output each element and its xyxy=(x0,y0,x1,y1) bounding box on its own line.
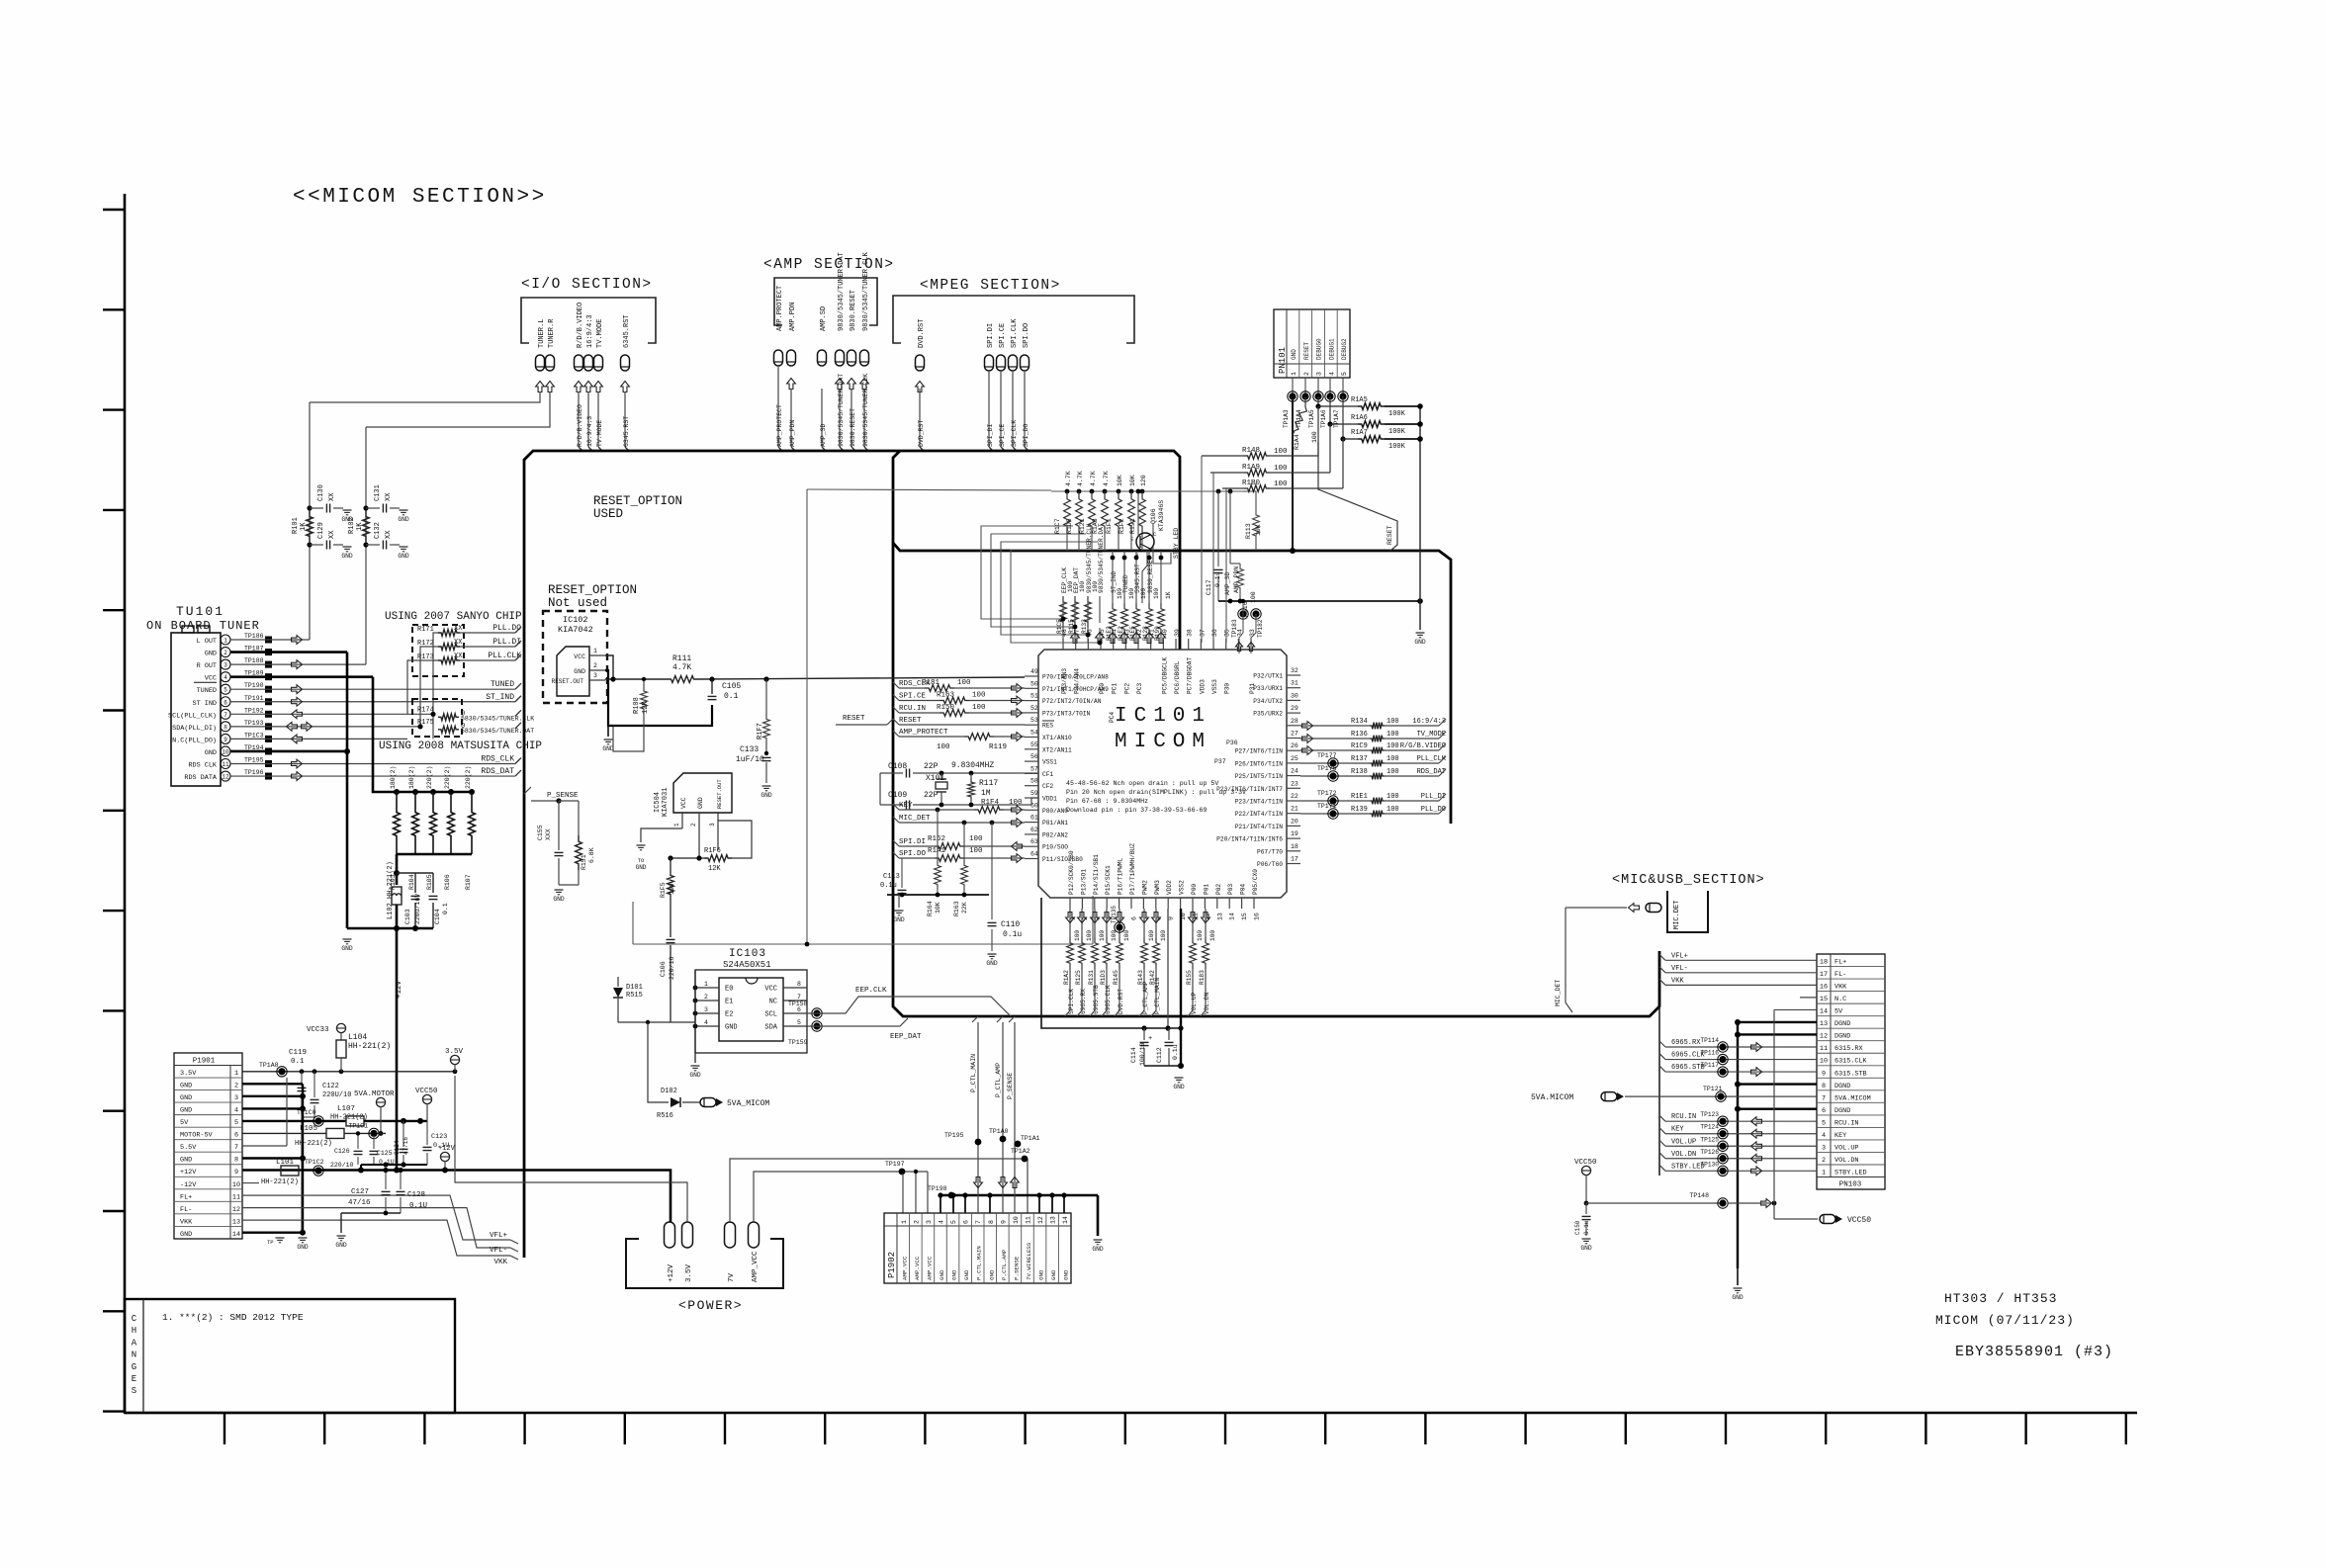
wire 9830/5345/TUNER.CLK down to bus xyxy=(862,374,869,451)
svg-text:EEP_DAT: EEP_DAT xyxy=(890,1033,922,1041)
svg-text:TUNER.R: TUNER.R xyxy=(548,318,556,348)
svg-text:Not used: Not used xyxy=(548,596,607,610)
wire eeprom net vertical xyxy=(1062,596,1064,623)
svg-text:220/16: 220/16 xyxy=(669,956,675,980)
svg-text:100: 100 xyxy=(1387,718,1399,726)
svg-text:5VA.MICOM: 5VA.MICOM xyxy=(1834,1094,1871,1102)
micom pin 28 xyxy=(1287,718,1300,726)
svg-text:28: 28 xyxy=(1291,718,1298,725)
ground IC102 xyxy=(604,739,613,740)
resistor R137 100 to PLL_CLK xyxy=(1300,752,1447,768)
svg-text:P25/INT5/T1IN: P25/INT5/T1IN xyxy=(1235,773,1284,780)
svg-text:GND: GND xyxy=(602,745,614,752)
svg-text:56: 56 xyxy=(1030,753,1038,760)
svg-text:H: H xyxy=(132,1326,136,1336)
svg-text:MIC_DET: MIC_DET xyxy=(1555,980,1562,1006)
svg-text:58: 58 xyxy=(1030,778,1038,785)
svg-text:TP1A6: TP1A6 xyxy=(1320,409,1327,428)
capacitor C110 0.1u xyxy=(988,823,1023,951)
svg-text:P35/URX2: P35/URX2 xyxy=(1253,711,1283,718)
svg-text:C130: C130 xyxy=(317,484,325,501)
test point TP1A5 xyxy=(1308,378,1323,428)
svg-text:1K: 1K xyxy=(1165,591,1172,599)
wire Q106 collector STBY_LED xyxy=(1136,489,1180,603)
svg-text:GND: GND xyxy=(725,1024,738,1032)
svg-text:C155: C155 xyxy=(537,825,544,840)
resistor R131 100 net 6965.STB xyxy=(1088,909,1106,1016)
svg-text:R1F2: R1F2 xyxy=(1118,518,1125,534)
eeprom pin 7 NC xyxy=(769,994,807,1006)
svg-text:17: 17 xyxy=(1291,856,1298,863)
svg-text:P23/INT4/T1IN: P23/INT4/T1IN xyxy=(1235,799,1284,806)
wire interior horizontal node xyxy=(633,896,1093,946)
wire 5V pullup rail xyxy=(1051,490,1243,492)
micom pin 12 xyxy=(1203,884,1211,920)
svg-text:C124: C124 xyxy=(394,1140,401,1155)
wire chip left edge ground trace xyxy=(1041,898,1181,1031)
svg-text:9: 9 xyxy=(1000,1220,1007,1224)
svg-text:5: 5 xyxy=(1822,1119,1826,1127)
micom pin 25 xyxy=(1235,755,1300,768)
svg-text:TP: TP xyxy=(267,1239,274,1246)
wire tuner GND rail bold xyxy=(346,653,349,928)
resistor R115 100 xyxy=(1068,581,1086,644)
svg-text:100: 100 xyxy=(972,704,986,712)
svg-text:100: 100 xyxy=(1148,930,1155,941)
svg-text:7: 7 xyxy=(224,712,227,719)
wire pullup to row xyxy=(1104,534,1106,551)
svg-text:6965.RX: 6965.RX xyxy=(1671,1039,1701,1047)
svg-text:220/10: 220/10 xyxy=(330,1162,354,1169)
wire P.CTL.MAIN xyxy=(944,1016,982,1213)
svg-text:TP192: TP192 xyxy=(244,707,264,714)
wire VKK row xyxy=(1659,977,1817,985)
connector MIC.DET xyxy=(1629,904,1662,913)
svg-text:0.1u: 0.1u xyxy=(1214,571,1221,587)
svg-text:TP188: TP188 xyxy=(244,657,264,664)
svg-text:23: 23 xyxy=(1291,780,1298,787)
svg-text:5: 5 xyxy=(1341,372,1348,376)
ground P.SENSE filter xyxy=(555,889,564,891)
svg-text:39: 39 xyxy=(1174,629,1181,637)
wire +12V to power xyxy=(242,1171,671,1223)
svg-text:0.1u: 0.1u xyxy=(1583,1220,1590,1235)
svg-text:XT1/AN10: XT1/AN10 xyxy=(1042,735,1072,741)
MPEG connector pin SPI.CLK xyxy=(1009,318,1020,371)
resistor R183 100 net VOL.DN xyxy=(1199,909,1216,1016)
svg-text:IC504: IC504 xyxy=(654,792,662,813)
svg-text:C: C xyxy=(132,1314,137,1324)
svg-text:GND: GND xyxy=(988,1269,995,1280)
svg-text:100/10: 100/10 xyxy=(1139,1042,1146,1066)
micom pin 43 xyxy=(1123,629,1130,694)
svg-text:P20/INT4/T1IN/INT6: P20/INT4/T1IN/INT6 xyxy=(1216,836,1283,843)
svg-text:VSS1: VSS1 xyxy=(1042,759,1057,766)
svg-text:TP190: TP190 xyxy=(244,682,264,689)
svg-text:100: 100 xyxy=(937,743,950,751)
connector P1902 xyxy=(884,1213,1071,1283)
micom pin 53 RES xyxy=(1025,717,1054,730)
micom pin 37 xyxy=(1199,629,1206,694)
svg-text:R163: R163 xyxy=(953,901,960,916)
capacitor C126 220/10 xyxy=(330,1131,363,1169)
svg-text:R/D/B.VIDEO: R/D/B.VIDEO xyxy=(577,303,584,348)
svg-text:3.5V: 3.5V xyxy=(180,1070,197,1078)
micom pin 59 VDD1 xyxy=(1025,790,1057,803)
svg-text:E: E xyxy=(132,1374,136,1384)
svg-text:7: 7 xyxy=(975,1220,982,1224)
wire pullup to row xyxy=(1141,534,1143,551)
svg-text:P21/INT4/T1IN: P21/INT4/T1IN xyxy=(1235,824,1284,830)
svg-text:GND: GND xyxy=(986,960,998,967)
signal SPI.DI R162 xyxy=(893,835,1025,850)
resistor R163 22K xyxy=(953,823,968,916)
svg-text:11: 11 xyxy=(222,761,229,768)
AMP connector pin AMP.SD xyxy=(818,306,829,366)
micom pin 63 P10/SOO xyxy=(1025,838,1068,851)
tuner TU101 pin 3 R OUT xyxy=(197,657,272,670)
svg-text:GND: GND xyxy=(963,1269,970,1280)
svg-text:TP1A1: TP1A1 xyxy=(1021,1135,1040,1142)
svg-text:R108: R108 xyxy=(633,697,641,714)
svg-text:L OUT: L OUT xyxy=(197,638,217,646)
svg-text:VSS2: VSS2 xyxy=(1179,880,1186,895)
svg-text:1: 1 xyxy=(901,1220,908,1224)
svg-text:64: 64 xyxy=(1030,851,1038,858)
svg-text:22K: 22K xyxy=(961,902,968,914)
wire cap bottoms xyxy=(1144,1065,1181,1067)
svg-text:4: 4 xyxy=(704,1019,708,1026)
resistor R1A9 100 xyxy=(1210,424,1330,476)
micom pin 36 xyxy=(1211,629,1218,694)
svg-text:PC3: PC3 xyxy=(1136,683,1143,694)
svg-text:XX: XX xyxy=(385,492,393,501)
svg-text:ST IND: ST IND xyxy=(193,700,217,708)
svg-text:VKK: VKK xyxy=(1834,984,1847,992)
wire STBY.LED row TP130 xyxy=(1659,1161,1817,1176)
micom pin 2 xyxy=(1080,869,1089,920)
svg-text:C114: C114 xyxy=(1130,1047,1137,1063)
svg-text:GND: GND xyxy=(1291,349,1297,360)
svg-text:R145: R145 xyxy=(1113,970,1119,985)
resistor R121 4.7K xyxy=(1079,471,1097,534)
wire PLL.CLK to tuner pin xyxy=(437,659,439,661)
border frame left ruler xyxy=(103,194,125,1413)
svg-text:11: 11 xyxy=(1820,1045,1828,1053)
svg-text:P.CTL.AMP: P.CTL.AMP xyxy=(1001,1249,1008,1280)
svg-text:IC101: IC101 xyxy=(1115,705,1211,728)
svg-text:R111: R111 xyxy=(672,654,691,663)
resistor R1E1 100 to PLL_DI xyxy=(1300,790,1446,806)
svg-text:6: 6 xyxy=(797,1006,801,1013)
svg-text:RESET.OUT: RESET.OUT xyxy=(716,779,723,809)
micom pin 61 P81/AN1 xyxy=(1025,815,1068,828)
svg-text:C119: C119 xyxy=(289,1049,307,1057)
signal SPI.CE xyxy=(893,692,1025,705)
svg-text:180(2): 180(2) xyxy=(408,766,415,789)
tuner TU101 pin 9 N.C(PLL_DO) xyxy=(172,732,272,744)
svg-text:VKK: VKK xyxy=(493,1259,507,1266)
svg-text:22: 22 xyxy=(1291,793,1298,800)
diode D101 R515 xyxy=(613,977,695,1024)
svg-text:P73/INT3/T0IN: P73/INT3/T0IN xyxy=(1042,710,1091,717)
test point TP1A4 xyxy=(1296,378,1310,428)
svg-text:24: 24 xyxy=(1291,768,1298,775)
svg-text:9830/5345/TUNER.CLK: 9830/5345/TUNER.CLK xyxy=(862,251,870,331)
svg-text:P22/INT4/T1IN: P22/INT4/T1IN xyxy=(1235,811,1284,818)
resistor R101 1K xyxy=(292,511,313,542)
svg-text:R515: R515 xyxy=(626,992,643,1000)
svg-text:R104: R104 xyxy=(408,874,415,890)
svg-text:AMP.SD: AMP.SD xyxy=(820,306,828,331)
svg-text:1: 1 xyxy=(593,648,597,654)
svg-text:2: 2 xyxy=(224,650,227,656)
svg-text:DVD.RST: DVD.RST xyxy=(1118,989,1124,1014)
svg-text:SPI.CLK: SPI.CLK xyxy=(1011,318,1019,348)
svg-text:E0: E0 xyxy=(725,986,733,994)
svg-text:GND: GND xyxy=(180,1083,192,1090)
svg-text:100: 100 xyxy=(1009,799,1023,807)
wire IC504 pin1 to gnd xyxy=(641,828,682,842)
micom pin 11 xyxy=(1191,884,1200,920)
svg-text:AMP.PDN: AMP.PDN xyxy=(789,303,797,331)
capacitor C114 100/10 xyxy=(1130,1028,1152,1066)
svg-text:GND: GND xyxy=(1732,1294,1744,1301)
svg-text:XT2/AN11: XT2/AN11 xyxy=(1042,746,1072,753)
svg-text:D101: D101 xyxy=(626,984,643,992)
wire MOTOR-5V L105 xyxy=(242,1122,386,1148)
svg-text:R1C9: R1C9 xyxy=(1351,742,1368,750)
svg-text:100: 100 xyxy=(1209,930,1216,941)
svg-text:6965.STB: 6965.STB xyxy=(1093,985,1100,1014)
svg-text:C126: C126 xyxy=(334,1148,350,1155)
resistor R174 0 xyxy=(417,706,534,722)
wire FL+ to bus xyxy=(242,1195,518,1244)
svg-text:C113: C113 xyxy=(883,873,900,881)
svg-text:VDD1: VDD1 xyxy=(1042,796,1057,803)
capacitor C112 0.1u xyxy=(1156,1028,1179,1066)
svg-text:XX: XX xyxy=(385,530,393,539)
wire +12V rail vertical bold xyxy=(396,905,403,1171)
svg-text:G: G xyxy=(132,1362,136,1372)
svg-text:52: 52 xyxy=(1030,705,1038,712)
resistor R113 10K xyxy=(1243,491,1262,551)
wire PLL.DI to tuner pin xyxy=(437,646,439,648)
svg-text:KIA7031: KIA7031 xyxy=(662,788,670,817)
svg-text:14: 14 xyxy=(1229,913,1236,920)
svg-text:R1A9: R1A9 xyxy=(1242,464,1260,472)
svg-text:RDS CLK: RDS CLK xyxy=(188,762,217,770)
svg-text:R102: R102 xyxy=(348,517,356,534)
svg-text:R183: R183 xyxy=(1199,970,1206,985)
mic usb section header xyxy=(1612,873,1765,932)
wire TU101 pin2 GND bold xyxy=(230,651,347,653)
svg-text:R137: R137 xyxy=(1351,755,1368,763)
dashed box reset option xyxy=(543,611,607,703)
svg-text:P10/SOO: P10/SOO xyxy=(1042,844,1068,851)
svg-text:P03: P03 xyxy=(1227,884,1234,895)
transistor Q106 KTA3946S xyxy=(1130,500,1165,559)
svg-text:6315.CLK: 6315.CLK xyxy=(1834,1058,1868,1066)
svg-text:Download pin : pin 37-38-39-53: Download pin : pin 37-38-39-53-66-69 xyxy=(1066,807,1207,814)
capacitor C132 xyxy=(363,522,408,560)
svg-text:R139: R139 xyxy=(1351,806,1368,814)
resistor R172 XX xyxy=(417,638,521,650)
svg-text:R113: R113 xyxy=(1245,523,1252,539)
svg-text:100: 100 xyxy=(1117,588,1123,599)
wire eeprom net vertical xyxy=(1074,596,1076,623)
svg-text:6965.RX: 6965.RX xyxy=(1080,989,1087,1014)
capacitor C128 0.1U xyxy=(397,1168,428,1213)
wire amp sd node xyxy=(1218,598,1423,604)
svg-text:R164: R164 xyxy=(927,901,934,916)
svg-text:4.7K: 4.7K xyxy=(672,663,691,672)
resistor R1F1 10K xyxy=(1106,475,1123,534)
svg-text:NC: NC xyxy=(769,999,777,1006)
svg-text:GND: GND xyxy=(939,1269,945,1280)
svg-text:CF1: CF1 xyxy=(1042,771,1053,778)
svg-text:2: 2 xyxy=(690,823,697,827)
border frame bottom ruler xyxy=(125,1413,2137,1444)
svg-text:100: 100 xyxy=(1074,930,1081,941)
resistor R173 XX xyxy=(417,652,521,663)
svg-text:+: + xyxy=(1148,1035,1152,1043)
svg-text:SPI.CLK: SPI.CLK xyxy=(1068,989,1075,1014)
svg-text:KEY: KEY xyxy=(1834,1132,1846,1140)
svg-text:4: 4 xyxy=(234,1107,238,1115)
svg-text:5V: 5V xyxy=(1834,1008,1843,1016)
svg-text:USING 2007 SANYO CHIP: USING 2007 SANYO CHIP xyxy=(385,611,522,623)
svg-text:R138: R138 xyxy=(1351,768,1368,776)
svg-text:29: 29 xyxy=(1291,705,1298,712)
svg-text:C123: C123 xyxy=(431,1133,447,1141)
svg-text:XX: XX xyxy=(328,530,336,539)
wire TUNER.L to tuner xyxy=(310,392,540,402)
ground reset pullup xyxy=(1416,632,1425,634)
micom pin 13 xyxy=(1215,884,1224,920)
svg-text:TP171: TP171 xyxy=(1317,803,1337,810)
svg-text:10K: 10K xyxy=(935,902,941,914)
AMP connector pin 9830/5345/TUNER.DAT xyxy=(836,252,847,389)
svg-text:3: 3 xyxy=(704,1006,708,1013)
svg-text:RES: RES xyxy=(1042,723,1053,730)
wire R108 down xyxy=(613,722,644,751)
svg-text:P17/T1PWMH/BUZ: P17/T1PWMH/BUZ xyxy=(1129,843,1136,895)
svg-text:R151: R151 xyxy=(581,854,587,870)
svg-text:GND: GND xyxy=(951,1269,958,1280)
svg-text:TP195: TP195 xyxy=(244,757,264,764)
svg-text:TP195: TP195 xyxy=(944,1132,964,1139)
svg-text:DVD.RST: DVD.RST xyxy=(918,319,926,348)
svg-text:VFL-: VFL- xyxy=(490,1247,507,1255)
svg-text:PC6/DBGRL: PC6/DBGRL xyxy=(1174,660,1181,694)
svg-text:GND: GND xyxy=(636,864,647,871)
svg-text:100: 100 xyxy=(1311,431,1318,443)
svg-text:TP183: TP183 xyxy=(1231,619,1238,638)
svg-text:SDA: SDA xyxy=(764,1024,777,1032)
ground IC103 xyxy=(691,1065,700,1067)
wire key filter gnd node xyxy=(887,893,989,908)
svg-text:1: 1 xyxy=(704,981,708,988)
tuner TU101 pin 4 VCC xyxy=(205,670,272,683)
MPEG connector pin DVD.RST xyxy=(916,319,927,392)
resistor R1A3 4.7K xyxy=(1092,471,1110,534)
svg-text:C128: C128 xyxy=(407,1191,425,1199)
svg-text:HH-221(2): HH-221(2) xyxy=(261,1178,299,1186)
notes box CHANGES xyxy=(125,1299,455,1413)
svg-text:CF2: CF2 xyxy=(1042,783,1053,790)
svg-text:AMP_PDN: AMP_PDN xyxy=(1233,566,1240,593)
svg-text:GND: GND xyxy=(398,516,409,523)
svg-text:<POWER>: <POWER> xyxy=(678,1298,743,1313)
svg-text:GND: GND xyxy=(1092,1246,1104,1253)
svg-text:XX: XX xyxy=(454,625,463,633)
svg-text:XX: XX xyxy=(328,492,336,501)
svg-text:R174: R174 xyxy=(417,706,434,714)
svg-text:4: 4 xyxy=(1822,1132,1826,1140)
micom pin 15 xyxy=(1240,884,1249,920)
svg-text:16: 16 xyxy=(1820,984,1828,992)
svg-text:100: 100 xyxy=(1387,742,1399,750)
MPEG connector pin SPI.DI xyxy=(985,323,996,371)
signal KEY R1F4 xyxy=(893,799,1025,814)
svg-text:TP196: TP196 xyxy=(244,769,264,776)
wire gnd rail bottom xyxy=(347,925,433,931)
power connector 3.5V xyxy=(682,1222,694,1282)
svg-text:C109: C109 xyxy=(888,791,907,800)
I/O connector pin TUNER.R xyxy=(546,318,557,392)
wire VFL- row xyxy=(1659,965,1817,973)
svg-text:1K: 1K xyxy=(356,522,364,531)
svg-text:R121: R121 xyxy=(1079,518,1086,534)
eeprom pin 2 E1 xyxy=(693,994,734,1006)
svg-text:220(2): 220(2) xyxy=(426,766,433,789)
wire 7V to P1902 xyxy=(730,1148,1030,1222)
svg-text:R106: R106 xyxy=(444,874,451,890)
ground IC504 xyxy=(637,844,646,846)
svg-text:C129: C129 xyxy=(317,522,325,539)
svg-text:TUNER.L: TUNER.L xyxy=(538,319,546,348)
micom pin 1 xyxy=(1068,850,1077,920)
svg-text:RESET_OPTION: RESET_OPTION xyxy=(593,494,682,508)
svg-text:TP1C2: TP1C2 xyxy=(305,1159,324,1166)
wire pullup to row xyxy=(1066,534,1068,551)
svg-text:P16/T1PWML: P16/T1PWML xyxy=(1118,858,1124,895)
svg-text:C106: C106 xyxy=(660,961,667,977)
wire VKK to bus xyxy=(242,1220,518,1266)
svg-text:GND: GND xyxy=(398,553,409,560)
micom pin 49 P70/INT0/T0LCP/AN8 xyxy=(1025,668,1109,681)
svg-text:KEY: KEY xyxy=(899,802,913,810)
svg-text:C117: C117 xyxy=(1206,579,1212,595)
svg-text:TP198: TP198 xyxy=(928,1185,947,1192)
svg-text:100: 100 xyxy=(969,835,983,843)
wire TU101 pin8 SDA xyxy=(230,722,420,731)
svg-text:SPI.DO: SPI.DO xyxy=(899,850,927,858)
svg-text:9830/5345/TUNER.DAT: 9830/5345/TUNER.DAT xyxy=(1098,523,1105,593)
micom pin 45 xyxy=(1099,629,1106,694)
svg-text:10: 10 xyxy=(222,748,229,755)
svg-text:TP191: TP191 xyxy=(244,695,264,702)
svg-text:AMP.VCC: AMP.VCC xyxy=(926,1256,933,1280)
svg-text:GND: GND xyxy=(180,1107,192,1115)
svg-text:37: 37 xyxy=(1199,629,1206,637)
svg-text:GND: GND xyxy=(893,916,905,923)
micom pin 29 xyxy=(1253,705,1300,718)
svg-text:TP116: TP116 xyxy=(1700,1050,1719,1057)
svg-text:SPI.CE: SPI.CE xyxy=(999,323,1007,348)
svg-text:N: N xyxy=(132,1350,136,1360)
